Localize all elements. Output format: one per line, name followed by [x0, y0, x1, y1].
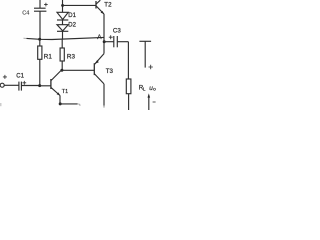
wire down to RL	[127, 42, 129, 79]
node base T1	[38, 84, 41, 87]
capacitor C4	[22, 0, 47, 39]
node junction diode top	[61, 4, 64, 7]
resistor R3	[60, 39, 75, 70]
resistor RL	[126, 79, 146, 110]
wire output vertical	[103, 14, 105, 54]
svg-text:C4: C4	[22, 11, 29, 17]
diode D1	[57, 12, 77, 20]
transistor T3	[94, 54, 113, 84]
wire to T1 base	[40, 85, 51, 87]
capacitor C1	[16, 73, 39, 90]
node R3 bottom	[60, 69, 63, 72]
resistor R1	[38, 39, 53, 86]
svg-text:D1: D1	[68, 13, 76, 19]
svg-text:T3: T3	[106, 68, 114, 75]
svg-text:C1: C1	[16, 73, 24, 79]
node A	[103, 40, 106, 43]
node R1 top	[38, 38, 41, 41]
diode D2	[57, 22, 77, 31]
svg-text:T1: T1	[62, 89, 68, 95]
transistor T1	[51, 71, 68, 96]
label uo	[149, 85, 156, 93]
transistor T2	[96, 0, 112, 14]
plus output	[149, 65, 153, 70]
minus output	[153, 101, 156, 103]
svg-text:T2: T2	[104, 2, 112, 9]
wire T1 collector up to R3 node	[61, 69, 62, 71]
wire bottom rail	[60, 103, 77, 105]
svg-text:o: o	[153, 88, 156, 93]
wire T1 emitter down	[59, 96, 61, 104]
input terminal	[0, 75, 19, 87]
node emitter ground	[59, 102, 62, 105]
wire	[62, 31, 64, 39]
wire	[62, 20, 64, 25]
svg-text:L: L	[143, 87, 146, 92]
open terminal bar	[139, 41, 151, 67]
svg-text:C3: C3	[113, 27, 121, 34]
wire top supply	[62, 0, 64, 12]
wire to T3 base	[62, 69, 94, 71]
uo arrow	[148, 93, 151, 110]
wire to T2 base	[63, 4, 96, 6]
svg-text:A: A	[97, 34, 102, 41]
wire T3 collector down	[103, 84, 105, 106]
faint edge mark	[0, 103, 2, 106]
svg-text:R1: R1	[44, 54, 53, 61]
capacitor C3	[104, 27, 128, 47]
svg-text:D2: D2	[68, 22, 76, 28]
wire bias rail	[27, 37, 105, 39]
svg-text:R3: R3	[67, 54, 76, 61]
